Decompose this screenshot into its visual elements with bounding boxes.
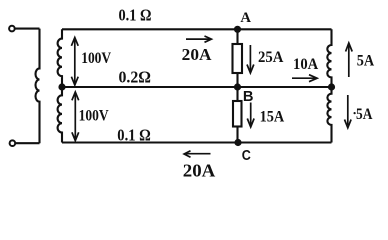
junction dot (right middle node) bbox=[328, 83, 335, 90]
svg-text:100V: 100V bbox=[79, 107, 109, 124]
resistor load B-C bbox=[233, 101, 242, 127]
svg-text:5A: 5A bbox=[357, 52, 375, 69]
junction dot (secondary centre tap) bbox=[58, 83, 65, 90]
terminal (top-left input) bbox=[9, 26, 15, 32]
wire bbox=[236, 73, 238, 87]
wire (middle line) bbox=[62, 86, 332, 88]
current arrow 25A (down, at R1) bbox=[247, 45, 254, 73]
svg-text:A: A bbox=[240, 10, 251, 26]
svg-text:20A: 20A bbox=[183, 161, 216, 181]
transformer primary winding bbox=[36, 29, 40, 144]
wire bbox=[15, 28, 40, 30]
resistor load A-B bbox=[233, 44, 243, 73]
voltage arrow 100V (upper source) bbox=[71, 38, 78, 86]
current arrow 15A (down, at R2) bbox=[247, 103, 254, 128]
svg-text:5A: 5A bbox=[356, 106, 373, 123]
svg-text:25A: 25A bbox=[258, 49, 284, 66]
node C bbox=[234, 139, 241, 146]
wire bbox=[236, 127, 238, 143]
voltage arrow 100V (lower source) bbox=[72, 92, 79, 141]
wire (top line) bbox=[62, 28, 332, 30]
svg-text:0.1 Ω: 0.1 Ω bbox=[119, 6, 152, 25]
wire bbox=[15, 142, 39, 144]
wire (bottom line) bbox=[62, 141, 332, 143]
svg-text:20A: 20A bbox=[182, 45, 212, 64]
svg-text:C: C bbox=[242, 148, 252, 164]
wire bbox=[236, 87, 238, 101]
svg-text:B: B bbox=[243, 89, 254, 105]
current arrow 5A (down, right lower load) bbox=[345, 95, 352, 128]
wire bbox=[236, 29, 238, 44]
inductor load upper-right bbox=[327, 29, 331, 87]
svg-text:0.2Ω: 0.2Ω bbox=[119, 67, 152, 86]
current arrow 10A (rightward, middle) bbox=[292, 75, 317, 82]
svg-text:100V: 100V bbox=[81, 50, 111, 67]
node B bbox=[234, 83, 241, 90]
transformer secondary upper winding (100V source) bbox=[58, 29, 62, 87]
transformer secondary lower winding (100V source) bbox=[58, 87, 62, 143]
middot before lower 5A bbox=[354, 112, 356, 114]
current arrow 20A (top, rightward) bbox=[186, 36, 211, 42]
node A bbox=[234, 26, 241, 33]
current arrow 5A (up, right upper load) bbox=[346, 43, 353, 77]
current arrow 20A (bottom, leftward) bbox=[184, 151, 210, 158]
terminal (bottom-left input) bbox=[10, 140, 16, 146]
inductor load lower-right bbox=[327, 87, 331, 143]
svg-text:0.1 Ω: 0.1 Ω bbox=[117, 126, 151, 145]
svg-text:15A: 15A bbox=[260, 109, 285, 126]
svg-text:10A: 10A bbox=[293, 56, 319, 73]
